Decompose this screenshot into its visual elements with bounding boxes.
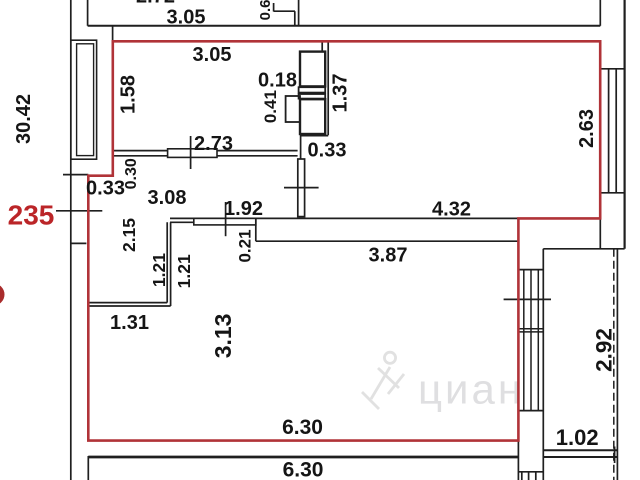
svg-text:циан: циан: [418, 366, 524, 413]
wall left outer vertical: [70, 0, 72, 480]
corridor wall lintel: [168, 149, 217, 158]
leader line 235: [56, 210, 102, 212]
svg-text:0.33: 0.33: [308, 139, 347, 161]
shaft small left box: [286, 96, 300, 122]
svg-text:2.15: 2.15: [119, 218, 139, 252]
svg-text:3.05: 3.05: [167, 7, 206, 29]
bottom wall line A right: [543, 456, 617, 458]
mid wall top line: [170, 217, 600, 219]
mid wall lintel: [194, 218, 256, 225]
svg-text:2.92: 2.92: [591, 328, 616, 372]
window left outer frame: [71, 40, 97, 159]
tick 1.02: [614, 447, 616, 464]
wall top horizontal: [88, 25, 601, 27]
interior wall vertical left line: [166, 222, 168, 302]
svg-text:1.21: 1.21: [149, 253, 169, 287]
svg-text:3.87: 3.87: [369, 244, 408, 266]
svg-text:6.30: 6.30: [283, 458, 324, 480]
tick 2.73: [190, 136, 192, 169]
right window bottom: [600, 192, 624, 194]
balcony right solid vertical: [616, 249, 618, 480]
shaft bar 1: [299, 87, 326, 92]
svg-text:2.73: 2.73: [194, 133, 233, 155]
corridor wall line upper: [113, 150, 298, 152]
balcony window glazing 3: [537, 270, 539, 411]
svg-text:4.32: 4.32: [432, 199, 471, 221]
shaft neighbor inner vertical: [294, 11, 296, 26]
svg-text:6.30: 6.30: [282, 416, 323, 439]
right window top: [600, 68, 624, 70]
window left inner frame: [77, 44, 94, 156]
bottom wall left end vertical: [87, 456, 89, 480]
shaft duct upper box: [300, 52, 325, 87]
balcony window mullion: [518, 328, 543, 330]
svg-text:1.58: 1.58: [117, 75, 139, 114]
corridor wall line lower: [113, 155, 298, 157]
bottom pier right vertical: [542, 249, 544, 480]
shaft neighbor top vertical left: [273, 3, 275, 12]
balcony floor line: [543, 449, 617, 451]
shaft bottom step horizontal: [301, 135, 329, 137]
svg-text:235: 235: [8, 200, 55, 231]
mid wall step vertical: [255, 218, 257, 241]
svg-text:3.13: 3.13: [210, 314, 236, 359]
watermark figure: [362, 352, 404, 409]
balcony window mullion lower line: [518, 331, 543, 333]
shaft bottom step vertical: [300, 133, 302, 159]
balcony window bottom: [518, 410, 543, 412]
interior wall horizontal top line: [88, 302, 167, 304]
wall connector top-left: [112, 26, 114, 42]
svg-text:2.63: 2.63: [576, 109, 598, 148]
wall right outer vertical: [623, 0, 625, 249]
svg-text:0.6: 0.6: [257, 0, 274, 20]
svg-text:1.21: 1.21: [174, 254, 194, 288]
bottom wall line A left: [88, 456, 518, 459]
shaft connector vertical: [321, 41, 323, 51]
shaft neighbor top horizontal: [274, 10, 295, 12]
pier column: [298, 159, 305, 217]
svg-text:3.05: 3.05: [193, 44, 232, 66]
shaft duct lower box: [300, 99, 325, 134]
bottom window glazing 2: [528, 472, 530, 480]
tick pier: [284, 187, 319, 189]
balcony top horizontal: [543, 248, 624, 250]
svg-text:1.92: 1.92: [224, 198, 263, 220]
svg-text:0.18: 0.18: [258, 69, 297, 91]
bottom window glazing 3: [535, 472, 537, 480]
svg-text:0.21: 0.21: [236, 229, 255, 262]
tick balcony window: [504, 298, 551, 300]
balcony right dashed vertical: [613, 249, 615, 480]
shaft bar 2: [299, 94, 326, 99]
svg-text:1.31: 1.31: [110, 312, 149, 334]
right wall inner vertical below window: [599, 193, 601, 249]
shaft neighbor outer vertical: [298, 0, 300, 26]
tick left y243: [70, 242, 86, 244]
apartment red outline: [88, 41, 600, 440]
bottom pier sill: [518, 471, 543, 473]
svg-text:1.02: 1.02: [556, 425, 599, 450]
svg-text:30.42: 30.42: [13, 94, 35, 144]
tick left y175: [63, 174, 88, 176]
bottom window glazing 1: [521, 472, 523, 480]
wall left inner vertical top: [87, 0, 89, 26]
tick 1.92: [225, 202, 227, 236]
bottom pier left vertical: [517, 411, 519, 480]
balcony window top: [518, 269, 543, 271]
svg-text:0.30: 0.30: [123, 158, 140, 189]
right window glazing 2: [615, 69, 617, 193]
balcony window glazing 1: [523, 270, 525, 411]
wall hall right vertical: [327, 41, 329, 135]
svg-text:1.37: 1.37: [329, 74, 351, 113]
mid wall thick bottom line: [256, 240, 519, 242]
right window glazing 1: [608, 69, 610, 193]
mid wall thin bottom line: [170, 221, 194, 223]
svg-text:0.41: 0.41: [261, 90, 280, 123]
interior wall vertical right line: [170, 222, 172, 306]
svg-text:0.33: 0.33: [86, 177, 125, 199]
svg-text:3.08: 3.08: [148, 187, 187, 209]
balcony window glazing 2: [530, 270, 532, 411]
interior wall horizontal bottom line: [88, 305, 170, 307]
red edge marker: [0, 284, 5, 306]
wall top right vertical: [599, 0, 601, 26]
